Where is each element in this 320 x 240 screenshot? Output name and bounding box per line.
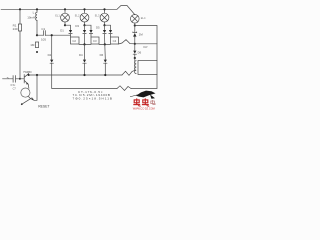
wire x105 down (104, 44, 107, 59)
svg-text:DW: DW (143, 45, 148, 49)
resistor zigzag to bottom bus (122, 70, 135, 75)
svg-text:C1: C1 (41, 27, 45, 31)
lamp EL4 (131, 14, 140, 23)
node top x20 (19, 8, 21, 10)
node base x20 (19, 78, 21, 80)
node mid right (134, 43, 136, 45)
box C4 (111, 37, 119, 44)
wire mid bus (37, 34, 43, 36)
wire mid bus right (45, 34, 70, 36)
lamp EL1 (61, 9, 70, 25)
wire x84 down (84, 44, 86, 59)
svg-text:10mH: 10mH (27, 16, 35, 20)
svg-text:7W9B0: 7W9B0 (23, 70, 32, 74)
wire (51, 63, 53, 88)
svg-text:C4: C4 (113, 39, 117, 43)
wire lamp2 to D3 (85, 25, 92, 30)
logo char chong 1 (133, 98, 140, 106)
node x105 (104, 43, 106, 45)
diode D7 (133, 44, 136, 58)
wire zener branch (134, 26, 136, 33)
wire right top (135, 26, 157, 44)
node lamp2 bottom (83, 24, 85, 26)
box C2 (71, 37, 80, 44)
node x84 (83, 43, 85, 45)
node bus x84 (83, 74, 85, 76)
svg-text:6.5c: 6.5c (11, 84, 16, 87)
wire bump to lamp EL4 (117, 6, 135, 15)
svg-text:D3: D3 (75, 24, 79, 28)
logo cap shape (136, 91, 156, 99)
node mid x37 (36, 34, 38, 36)
wire bottom bus (29, 74, 122, 76)
node bus x105 (104, 74, 106, 76)
resistor R1 (18, 9, 21, 79)
wire to switch (29, 97, 31, 99)
svg-text:C3: C3 (93, 39, 97, 43)
svg-text:C2: C2 (72, 39, 76, 43)
lamp EL3 (100, 9, 109, 25)
resistor R2 (35, 42, 38, 48)
resistor zigzag mid (119, 40, 135, 44)
diode D5 (83, 60, 86, 75)
box C3 (91, 37, 99, 44)
resistor zigzag bottom (117, 86, 131, 91)
svg-text:EL4: EL4 (141, 16, 146, 20)
diode D3 (89, 30, 92, 37)
svg-text:EL2: EL2 (75, 13, 80, 17)
node lamp4 bottom (134, 24, 136, 26)
svg-text:C7: C7 (13, 88, 17, 91)
logo char chong 2 (142, 98, 149, 106)
svg-text:D1: D1 (60, 29, 64, 33)
wire lamp3 to D6 (105, 25, 111, 30)
capacitor C1 (43, 31, 45, 36)
wire under boxes left (79, 43, 91, 45)
diode D1 (69, 30, 72, 37)
diode D2 (83, 25, 86, 44)
wire top bus (1, 8, 117, 10)
svg-text:1M: 1M (30, 43, 35, 47)
svg-text:S: S (7, 76, 9, 80)
wire emitter down (27, 84, 30, 88)
diode D6 (104, 60, 107, 75)
wire lamp4 stub (134, 23, 136, 25)
svg-text:D6: D6 (100, 53, 104, 57)
wire bottom return right (131, 75, 157, 89)
node top x37 (36, 8, 38, 10)
svg-text:EL3: EL3 (95, 13, 100, 17)
zener DW (133, 32, 137, 37)
svg-text:105: 105 (41, 37, 46, 41)
logo text (133, 98, 149, 106)
node x37 y52 (36, 51, 38, 53)
wire column x52 (51, 35, 53, 59)
lamp EL2 (80, 9, 89, 25)
svg-text:7Φ0.25×18.5H11B: 7Φ0.25×18.5H11B (73, 96, 113, 100)
svg-text:2M: 2M (139, 32, 144, 36)
capacitor C6 series (3, 76, 25, 83)
node mid x52 (51, 34, 53, 36)
diode D5a (103, 25, 106, 44)
svg-text:RESET: RESET (38, 105, 49, 109)
diode D4 (50, 60, 53, 64)
svg-text:WWW.CC-DZ.COM: WWW.CC-DZ.COM (133, 107, 155, 110)
node lamp1 bottom (64, 24, 66, 26)
transistor circle (21, 88, 30, 97)
wire lamp1 to D1 (65, 25, 71, 30)
node top x84 (83, 8, 85, 10)
svg-text:240: 240 (13, 27, 18, 31)
node top x104 (103, 8, 105, 10)
node coil top (134, 57, 136, 59)
wire x37 down to switch (34, 75, 37, 100)
node lamp3 bottom (103, 24, 105, 26)
node top x65 (64, 8, 66, 10)
svg-text:D6: D6 (138, 51, 142, 55)
svg-text:EL1: EL1 (55, 13, 60, 17)
logo char dian (151, 101, 155, 104)
wire (134, 58, 136, 70)
coil core box (138, 61, 157, 75)
svg-text:L: L (33, 11, 35, 15)
coil winding (135, 61, 137, 74)
svg-text:D4: D4 (79, 53, 83, 57)
wire (134, 37, 136, 44)
transistor VT (24, 74, 28, 85)
wire under boxes right (99, 43, 111, 45)
node bus x37 (36, 74, 38, 76)
diode D6a (109, 30, 112, 37)
switch S (21, 98, 34, 105)
inductor L (36, 9, 37, 35)
svg-text:D2: D2 (48, 53, 52, 57)
wire bottom return (52, 88, 117, 90)
node collector (28, 74, 30, 76)
svg-text:D5: D5 (96, 25, 100, 29)
wire mid right to edge (135, 44, 157, 61)
